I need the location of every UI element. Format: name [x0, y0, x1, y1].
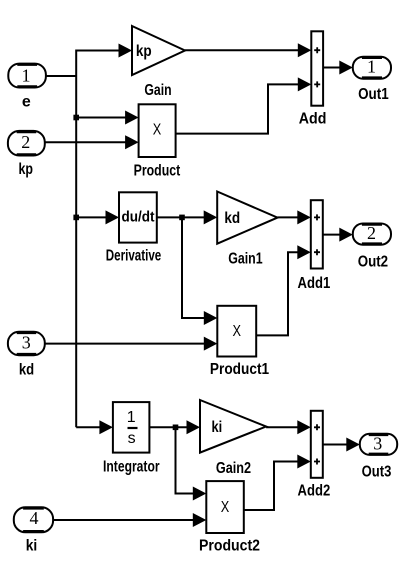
svg-text:ki: ki — [26, 538, 38, 555]
svg-text:s: s — [128, 430, 136, 447]
svg-text:X: X — [221, 499, 230, 516]
svg-text:3: 3 — [373, 433, 382, 453]
svg-text:ki: ki — [212, 419, 223, 436]
svg-text:Gain1: Gain1 — [228, 251, 262, 268]
svg-text:Out1: Out1 — [358, 86, 389, 103]
svg-text:du/dt: du/dt — [122, 209, 155, 226]
svg-text:Product1: Product1 — [210, 361, 269, 378]
svg-text:kp: kp — [18, 161, 33, 178]
svg-text:3: 3 — [22, 333, 31, 353]
svg-text:Product: Product — [134, 163, 181, 180]
svg-text:X: X — [233, 323, 242, 340]
svg-text:1: 1 — [127, 409, 136, 426]
svg-text:1: 1 — [367, 57, 376, 77]
svg-text:X: X — [153, 122, 162, 139]
svg-text:1: 1 — [22, 66, 31, 86]
svg-text:Integrator: Integrator — [103, 459, 160, 476]
svg-text:kp: kp — [136, 43, 152, 60]
svg-text:e: e — [22, 94, 31, 111]
svg-text:4: 4 — [30, 508, 39, 528]
svg-text:2: 2 — [21, 132, 30, 152]
svg-text:Add2: Add2 — [298, 483, 331, 500]
svg-text:2: 2 — [367, 223, 376, 243]
svg-text:kd: kd — [224, 210, 240, 227]
svg-text:Derivative: Derivative — [106, 248, 162, 265]
svg-text:Out2: Out2 — [358, 254, 388, 271]
svg-text:Add: Add — [299, 111, 327, 128]
svg-text:Product2: Product2 — [199, 538, 260, 555]
svg-text:Gain: Gain — [144, 82, 171, 99]
svg-text:Out3: Out3 — [362, 464, 392, 481]
svg-text:Gain2: Gain2 — [216, 460, 251, 477]
svg-text:kd: kd — [19, 362, 34, 379]
svg-text:Add1: Add1 — [298, 275, 331, 292]
